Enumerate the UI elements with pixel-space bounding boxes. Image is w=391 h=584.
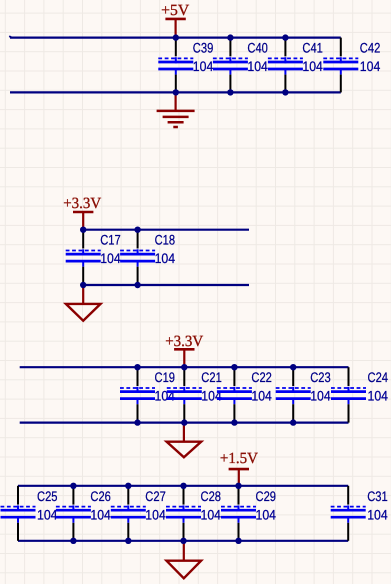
junction bbox=[181, 419, 187, 425]
power +3.3V group3 bbox=[165, 333, 204, 367]
svg-text:C17: C17 bbox=[100, 233, 121, 248]
capacitor C39 bbox=[158, 38, 213, 93]
svg-text:104: 104 bbox=[201, 507, 222, 522]
power +1.5V bbox=[220, 450, 259, 486]
wire +5V top rail bbox=[10, 36, 341, 38]
svg-text:104: 104 bbox=[155, 251, 176, 266]
capacitor C40 bbox=[213, 38, 268, 93]
svg-text:104: 104 bbox=[145, 507, 166, 522]
power +5V bbox=[161, 2, 190, 38]
junction bbox=[180, 538, 186, 544]
junction bbox=[231, 419, 237, 425]
svg-text:+5V: +5V bbox=[161, 2, 190, 19]
junction bbox=[70, 483, 76, 489]
junction bbox=[80, 282, 86, 288]
svg-text:104: 104 bbox=[251, 389, 272, 404]
junction bbox=[173, 34, 179, 40]
capacitor C23 bbox=[276, 367, 331, 422]
capacitor C42 bbox=[323, 38, 380, 93]
svg-text:104: 104 bbox=[302, 59, 323, 74]
capacitor C21 bbox=[167, 367, 222, 422]
wire bottom rail group4 bbox=[18, 540, 348, 542]
svg-text:C23: C23 bbox=[310, 370, 331, 385]
svg-text:C42: C42 bbox=[360, 41, 381, 56]
ground GND group4 bbox=[167, 541, 202, 579]
svg-text:C18: C18 bbox=[155, 233, 176, 248]
junction bbox=[181, 364, 187, 370]
junction bbox=[227, 89, 233, 95]
svg-text:104: 104 bbox=[256, 507, 277, 522]
svg-text:C28: C28 bbox=[201, 489, 222, 504]
svg-text:104: 104 bbox=[90, 507, 111, 522]
svg-text:104: 104 bbox=[193, 59, 214, 74]
svg-text:C22: C22 bbox=[251, 370, 272, 385]
junction bbox=[282, 34, 288, 40]
svg-text:104: 104 bbox=[37, 507, 58, 522]
capacitor C24 bbox=[331, 367, 388, 422]
capacitor C28 bbox=[166, 486, 221, 541]
capacitor C27 bbox=[111, 486, 166, 541]
capacitor C29 bbox=[221, 486, 276, 541]
wire +3.3V top rail group3 bbox=[20, 366, 349, 368]
junction bbox=[134, 282, 140, 288]
svg-text:+1.5V: +1.5V bbox=[220, 450, 259, 467]
junction bbox=[125, 538, 131, 544]
svg-text:C19: C19 bbox=[155, 370, 176, 385]
capacitor C26 bbox=[56, 486, 111, 541]
ground earth group1 bbox=[157, 92, 195, 127]
wire bottom rail group2 bbox=[83, 284, 249, 286]
wire bottom rail group3 bbox=[20, 422, 349, 424]
junction bbox=[235, 483, 241, 489]
capacitor C31 bbox=[331, 486, 388, 541]
wire bottom rail group1 bbox=[10, 91, 341, 93]
junction bbox=[80, 227, 86, 233]
wire end tick bbox=[9, 36, 12, 37]
wire +3.3V top rail group2 bbox=[83, 229, 249, 231]
ground GND group2 bbox=[66, 285, 101, 321]
junction bbox=[180, 483, 186, 489]
svg-text:C27: C27 bbox=[145, 489, 166, 504]
svg-text:C29: C29 bbox=[256, 489, 277, 504]
ground GND group3 bbox=[167, 423, 202, 458]
svg-text:+3.3V: +3.3V bbox=[63, 195, 102, 212]
capacitor C18 bbox=[120, 230, 175, 285]
junction bbox=[231, 364, 237, 370]
junction bbox=[134, 227, 140, 233]
junction bbox=[227, 34, 233, 40]
svg-text:+3.3V: +3.3V bbox=[165, 333, 204, 350]
junction bbox=[134, 419, 140, 425]
junction bbox=[173, 89, 179, 95]
junction bbox=[282, 89, 288, 95]
svg-text:C21: C21 bbox=[201, 370, 222, 385]
wire +1.5V top rail group4 bbox=[18, 485, 348, 487]
capacitor C17 bbox=[66, 230, 121, 285]
power +3.3V group2 bbox=[63, 195, 102, 230]
svg-text:C41: C41 bbox=[302, 41, 323, 56]
svg-text:C26: C26 bbox=[90, 489, 111, 504]
capacitor C22 bbox=[217, 367, 272, 422]
junction bbox=[125, 483, 131, 489]
capacitor C41 bbox=[268, 38, 323, 93]
svg-text:104: 104 bbox=[100, 251, 121, 266]
capacitor C19 bbox=[120, 367, 175, 422]
svg-text:C40: C40 bbox=[247, 41, 268, 56]
junction bbox=[70, 538, 76, 544]
svg-text:104: 104 bbox=[310, 389, 331, 404]
svg-text:104: 104 bbox=[367, 507, 388, 522]
junction bbox=[134, 364, 140, 370]
svg-text:104: 104 bbox=[360, 59, 381, 74]
junction bbox=[235, 538, 241, 544]
junction bbox=[290, 419, 296, 425]
svg-text:C24: C24 bbox=[368, 370, 389, 385]
junction bbox=[290, 364, 296, 370]
svg-text:104: 104 bbox=[247, 59, 268, 74]
svg-text:C31: C31 bbox=[367, 489, 388, 504]
svg-text:104: 104 bbox=[368, 389, 389, 404]
capacitor C25 bbox=[1, 486, 58, 541]
svg-text:C39: C39 bbox=[193, 41, 214, 56]
svg-text:C25: C25 bbox=[37, 489, 58, 504]
